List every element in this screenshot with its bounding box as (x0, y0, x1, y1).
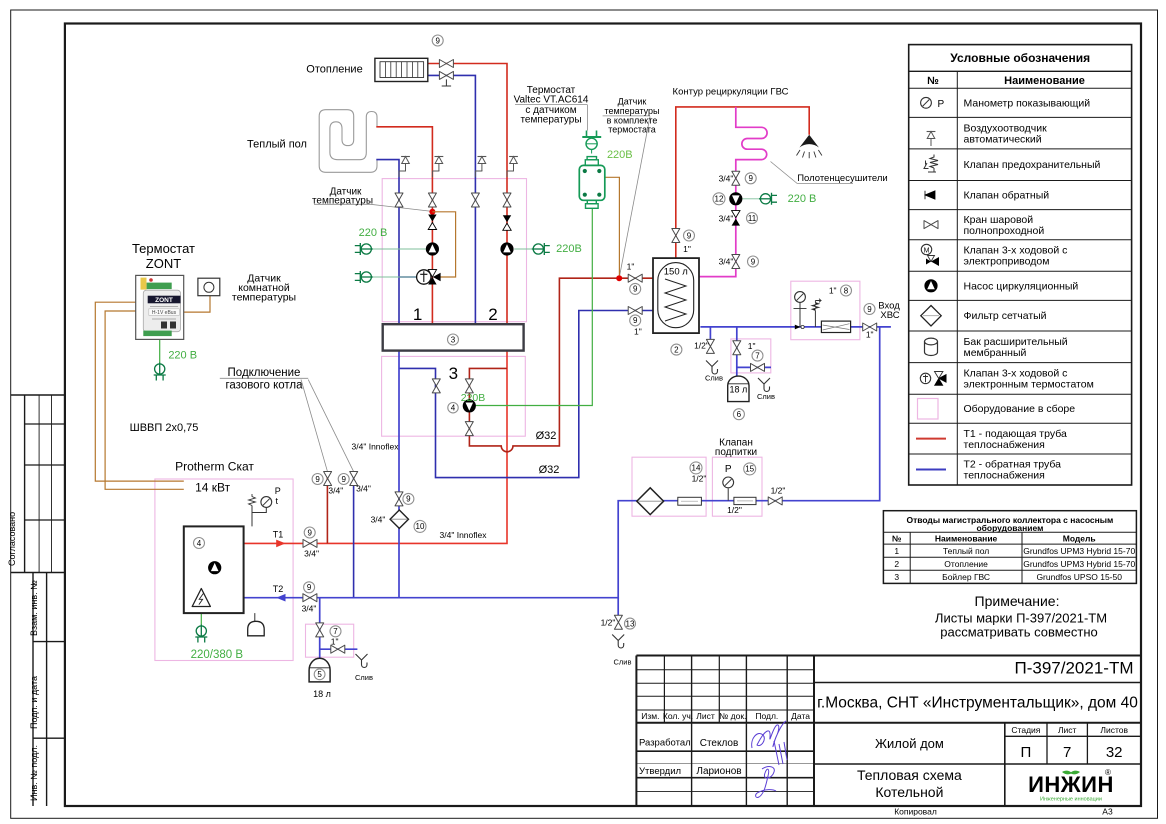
svg-text:11: 11 (748, 214, 757, 223)
svg-text:t: t (276, 496, 279, 506)
svg-text:Разработал: Разработал (639, 738, 691, 749)
svg-text:подпитки: подпитки (715, 447, 757, 458)
svg-text:Насос циркуляционный: Насос циркуляционный (964, 280, 1079, 292)
svg-text:T2: T2 (273, 584, 284, 594)
svg-text:®: ® (1105, 768, 1111, 777)
svg-text:12: 12 (715, 195, 724, 204)
svg-text:Инженерные инновации: Инженерные инновации (1040, 797, 1102, 803)
svg-text:18 л: 18 л (730, 385, 748, 395)
svg-text:3/4": 3/4" (328, 486, 343, 496)
svg-text:220 В: 220 В (168, 350, 197, 362)
svg-text:9: 9 (633, 316, 638, 325)
svg-text:220В: 220В (607, 149, 633, 161)
svg-text:ХВС: ХВС (880, 310, 899, 321)
svg-text:Модель: Модель (1063, 533, 1096, 543)
svg-text:9: 9 (341, 475, 346, 484)
svg-text:Стеклов: Стеклов (700, 738, 739, 749)
svg-text:Подключение: Подключение (228, 367, 301, 379)
svg-text:3/4": 3/4" (371, 515, 386, 525)
svg-text:13: 13 (626, 619, 635, 628)
svg-text:H-1V eBus: H-1V eBus (152, 310, 177, 316)
svg-text:Копировал: Копировал (894, 807, 937, 817)
svg-text:1": 1" (866, 330, 874, 340)
svg-text:Листы марки П-397/2021-ТМ: Листы марки П-397/2021-ТМ (935, 611, 1107, 626)
svg-text:автоматический: автоматический (964, 133, 1042, 145)
svg-text:9: 9 (406, 495, 411, 504)
svg-text:Примечание:: Примечание: (975, 593, 1060, 609)
svg-text:Слив: Слив (757, 392, 775, 401)
svg-text:1": 1" (627, 262, 635, 272)
svg-text:электроприводом: электроприводом (964, 256, 1050, 268)
svg-text:6: 6 (737, 410, 742, 419)
svg-text:Стадия: Стадия (1011, 725, 1040, 735)
svg-text:Тепловая схема: Тепловая схема (857, 767, 962, 783)
svg-text:3/4" Innoflex: 3/4" Innoflex (440, 530, 488, 540)
svg-text:Условные обозначения: Условные обозначения (950, 51, 1090, 65)
svg-text:32: 32 (1106, 744, 1123, 761)
svg-text:9: 9 (633, 285, 638, 294)
svg-text:Лист: Лист (696, 711, 715, 721)
svg-text:3/4" Innoflex: 3/4" Innoflex (352, 442, 400, 452)
svg-text:Grundfos UPSO 15-50: Grundfos UPSO 15-50 (1036, 572, 1122, 582)
svg-text:T1: T1 (273, 530, 284, 540)
svg-text:Подл.: Подл. (755, 711, 778, 721)
svg-text:Оборудование в сборе: Оборудование в сборе (964, 403, 1076, 415)
svg-text:П: П (1021, 744, 1032, 761)
svg-text:теплоснабжения: теплоснабжения (964, 470, 1045, 482)
svg-text:Клапан обратный: Клапан обратный (964, 190, 1050, 202)
svg-text:1/2": 1/2" (771, 486, 786, 496)
svg-text:Protherm Скат: Protherm Скат (175, 460, 254, 474)
svg-text:Отопление: Отопление (306, 64, 362, 76)
svg-text:4: 4 (197, 539, 202, 548)
svg-text:Дата: Дата (791, 711, 810, 721)
svg-text:3/4": 3/4" (302, 604, 317, 614)
svg-text:3/4": 3/4" (719, 174, 734, 184)
svg-text:1/2": 1/2" (694, 341, 709, 351)
svg-text:220 В: 220 В (359, 227, 388, 239)
svg-text:электронным термостатом: электронным термостатом (964, 379, 1094, 391)
svg-text:3: 3 (894, 572, 899, 582)
svg-text:Ларионов: Ларионов (696, 766, 741, 777)
svg-text:220В: 220В (461, 392, 486, 404)
svg-text:220В: 220В (556, 243, 582, 255)
svg-text:Р: Р (725, 464, 732, 475)
svg-text:Слив: Слив (355, 673, 373, 682)
svg-text:1": 1" (683, 244, 691, 254)
svg-text:Наименование: Наименование (1004, 75, 1085, 87)
svg-text:10: 10 (416, 522, 425, 531)
svg-text:Согласовано: Согласовано (7, 512, 17, 566)
svg-text:оборудованием: оборудованием (976, 523, 1043, 533)
svg-text:4: 4 (451, 404, 456, 413)
svg-text:температуры: температуры (232, 292, 296, 304)
svg-text:Утвердил: Утвердил (639, 766, 681, 777)
svg-text:г.Москва, СНТ «Инструментальщи: г.Москва, СНТ «Инструментальщик», дом 40 (817, 695, 1138, 712)
svg-text:Кол. уч.: Кол. уч. (663, 711, 693, 721)
svg-text:Подп. и дата: Подп. и дата (29, 676, 39, 729)
svg-text:температуры: температуры (604, 106, 659, 116)
svg-text:полнопроходной: полнопроходной (964, 225, 1045, 237)
svg-text:9: 9 (687, 231, 692, 240)
svg-text:2: 2 (674, 345, 679, 354)
svg-text:термостата: термостата (608, 125, 656, 135)
svg-text:№ док.: № док. (719, 711, 746, 721)
svg-text:газового котла: газового котла (225, 380, 303, 392)
svg-text:Взам. инв. №: Взам. инв. № (29, 580, 39, 636)
svg-text:1": 1" (331, 637, 339, 647)
svg-text:ZONT: ZONT (155, 297, 173, 304)
svg-text:14 кВт: 14 кВт (195, 481, 231, 495)
svg-text:мембранный: мембранный (964, 347, 1027, 359)
svg-text:3: 3 (451, 335, 456, 344)
svg-text:теплоснабжения: теплоснабжения (964, 439, 1045, 451)
svg-text:1": 1" (634, 327, 642, 337)
svg-text:Теплый пол: Теплый пол (943, 546, 989, 556)
svg-text:7: 7 (755, 351, 760, 360)
svg-text:1: 1 (894, 546, 899, 556)
svg-text:9: 9 (307, 528, 312, 537)
svg-text:ИНЖИН: ИНЖИН (1028, 772, 1114, 797)
svg-text:Жилой дом: Жилой дом (875, 736, 944, 751)
svg-text:1/2": 1/2" (692, 474, 707, 484)
svg-text:1": 1" (829, 286, 837, 296)
svg-text:Ø32: Ø32 (539, 464, 560, 476)
svg-text:Grundfos UPM3 Hybrid 15-70: Grundfos UPM3 Hybrid 15-70 (1023, 546, 1135, 556)
svg-text:Наименование: Наименование (935, 533, 998, 543)
svg-text:П-397/2021-ТМ: П-397/2021-ТМ (1015, 659, 1134, 678)
svg-text:1/2": 1/2" (727, 505, 742, 515)
svg-text:3/4": 3/4" (304, 549, 319, 559)
svg-text:1: 1 (413, 305, 422, 324)
svg-text:9: 9 (867, 305, 872, 314)
svg-text:2: 2 (488, 305, 497, 324)
svg-text:Слив: Слив (705, 374, 723, 383)
svg-text:Отопление: Отопление (944, 559, 988, 569)
svg-text:Клапан предохранительный: Клапан предохранительный (964, 159, 1101, 171)
svg-text:Valtec VT.AC614: Valtec VT.AC614 (514, 95, 589, 106)
svg-text:№: № (927, 75, 939, 87)
svg-text:7: 7 (1063, 744, 1071, 761)
svg-text:ZONT: ZONT (146, 256, 181, 271)
svg-text:Термостат: Термостат (132, 241, 195, 256)
svg-text:5: 5 (317, 670, 322, 679)
svg-text:Полотенцесушители: Полотенцесушители (797, 173, 888, 184)
svg-text:Котельной: Котельной (875, 784, 943, 800)
svg-text:Р: Р (938, 99, 945, 110)
svg-text:150 л: 150 л (664, 267, 688, 278)
svg-text:2: 2 (894, 559, 899, 569)
svg-text:М: М (924, 248, 930, 255)
svg-text:9: 9 (307, 583, 312, 592)
svg-text:Датчик: Датчик (618, 97, 647, 107)
svg-text:Изм.: Изм. (641, 711, 659, 721)
svg-text:220/380 В: 220/380 В (191, 649, 244, 661)
svg-text:ШВВП 2х0,75: ШВВП 2х0,75 (130, 422, 199, 434)
svg-text:9: 9 (751, 257, 756, 266)
svg-text:Инв. № подл.: Инв. № подл. (29, 745, 39, 801)
svg-text:температуры: температуры (520, 115, 581, 126)
svg-text:8: 8 (844, 286, 849, 295)
svg-text:Слив: Слив (614, 658, 632, 667)
svg-text:7: 7 (333, 627, 338, 636)
svg-text:9: 9 (435, 36, 440, 45)
svg-text:Манометр показывающий: Манометр показывающий (964, 97, 1091, 109)
svg-text:3: 3 (449, 364, 458, 383)
svg-text:Р: Р (275, 486, 281, 496)
svg-text:15: 15 (745, 465, 754, 474)
svg-text:1": 1" (748, 341, 756, 351)
svg-text:Лист: Лист (1058, 725, 1077, 735)
svg-text:Grundfos UPM3 Hybrid 15-70: Grundfos UPM3 Hybrid 15-70 (1023, 559, 1135, 569)
svg-text:3/4": 3/4" (719, 214, 734, 224)
svg-text:рассматривать совместно: рассматривать совместно (940, 625, 1098, 640)
svg-text:3/4": 3/4" (356, 484, 371, 494)
svg-text:9: 9 (748, 174, 753, 183)
svg-text:№: № (892, 533, 902, 543)
svg-text:18 л: 18 л (313, 689, 331, 699)
svg-text:температуры: температуры (312, 196, 373, 207)
svg-text:Теплый пол: Теплый пол (247, 139, 307, 151)
svg-text:9: 9 (315, 475, 320, 484)
svg-text:14: 14 (692, 464, 701, 473)
svg-text:Бойлер ГВС: Бойлер ГВС (942, 572, 990, 582)
svg-text:3/4": 3/4" (719, 257, 734, 267)
svg-text:Листов: Листов (1100, 725, 1128, 735)
svg-text:220 В: 220 В (788, 193, 817, 205)
svg-text:Фильтр сетчатый: Фильтр сетчатый (964, 310, 1047, 322)
svg-text:1/2": 1/2" (601, 618, 616, 628)
svg-text:Ø32: Ø32 (536, 430, 557, 442)
svg-text:Контур рециркуляции ГВС: Контур рециркуляции ГВС (673, 87, 789, 98)
svg-text:А3: А3 (1102, 807, 1113, 817)
